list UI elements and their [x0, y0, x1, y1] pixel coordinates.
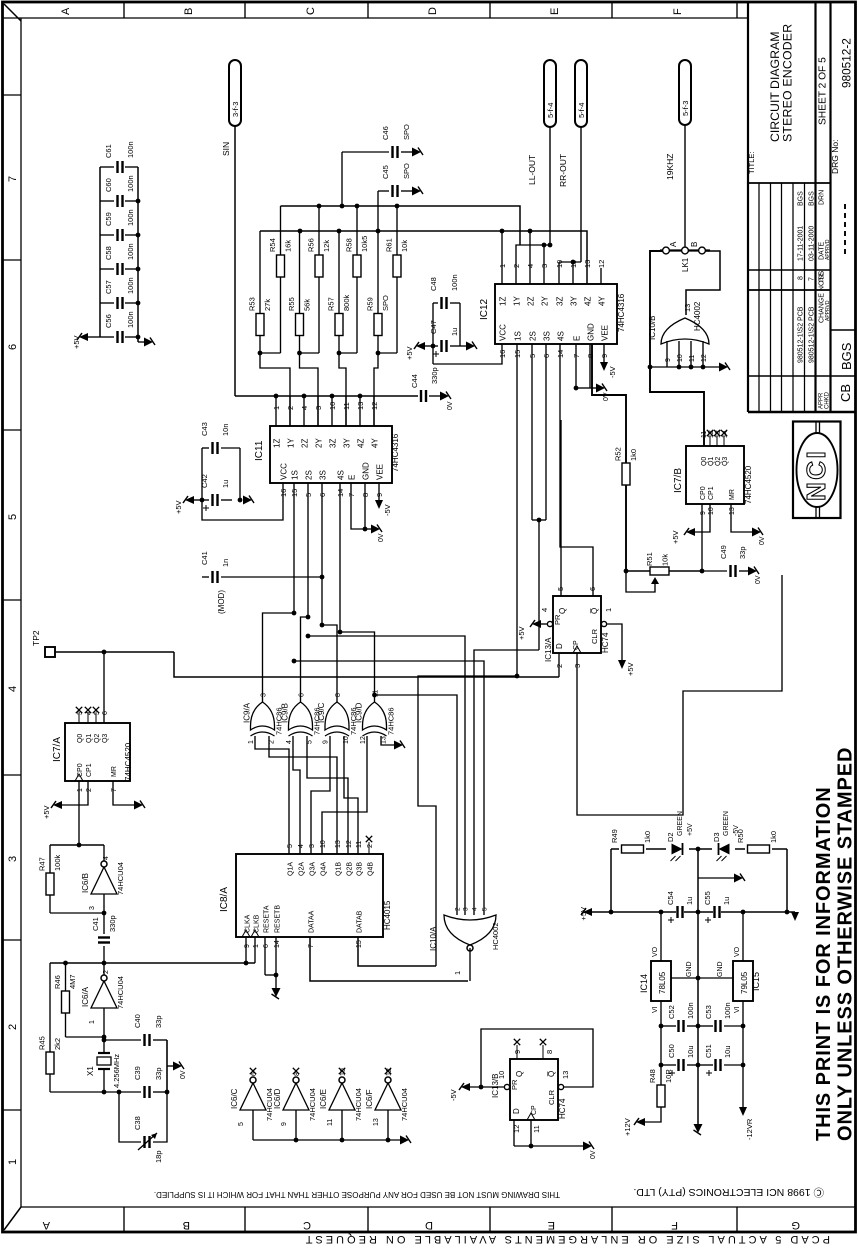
svg-text:SPO: SPO	[402, 163, 411, 179]
svg-text:STEREO ENCODER: STEREO ENCODER	[781, 24, 795, 142]
capacitor C44	[410, 367, 440, 402]
svg-text:17-11-2001: 17-11-2001	[798, 226, 805, 261]
resistor R48	[645, 1069, 673, 1122]
svg-text:100n: 100n	[450, 274, 459, 291]
regulator IC14 78L05	[639, 912, 698, 1087]
svg-text:IC9/A: IC9/A	[243, 702, 252, 723]
frame row numbers left	[7, 176, 19, 1165]
svg-text:C40: C40	[133, 1014, 142, 1028]
svg-text:2Z: 2Z	[527, 297, 536, 306]
ground (cap bank)	[138, 338, 155, 347]
svg-text:3-f-3: 3-f-3	[231, 102, 240, 117]
svg-text:4Y: 4Y	[371, 438, 380, 448]
svg-text:4Z: 4Z	[357, 439, 366, 448]
svg-text:+5V: +5V	[42, 805, 51, 819]
ground (IC11)	[371, 525, 385, 543]
svg-text:Q0: Q0	[77, 734, 84, 743]
gate IC6/F 74HCU04	[365, 1068, 409, 1143]
svg-text:G: G	[791, 1219, 800, 1231]
svg-text:Q0: Q0	[701, 457, 708, 466]
wire +5V rail	[579, 907, 698, 921]
wire bus lower	[260, 229, 587, 284]
wire IC13/A D	[558, 653, 560, 677]
wire IC11 VCC	[202, 483, 283, 520]
capacitor C41 (MOD)	[200, 551, 324, 614]
svg-text:2Y: 2Y	[315, 438, 324, 448]
svg-text:10k5: 10k5	[360, 236, 369, 252]
svg-text:-5V: -5V	[608, 366, 617, 378]
svg-text:74HCU04: 74HCU04	[400, 1088, 409, 1121]
svg-text:IC12: IC12	[479, 298, 490, 320]
svg-text:74HCU04: 74HCU04	[116, 862, 125, 895]
wire select nest	[292, 634, 539, 915]
wire IC11 selects	[294, 483, 340, 632]
svg-text:HC4002: HC4002	[693, 301, 702, 331]
svg-text:D3: D3	[712, 832, 721, 842]
svg-text:SHEET 2 OF 5: SHEET 2 OF 5	[818, 57, 829, 125]
wire IC12 selects	[418, 344, 593, 966]
svg-text:33p: 33p	[154, 1067, 163, 1080]
svg-text:0V: 0V	[603, 392, 610, 401]
power +5V (IC11)	[174, 496, 202, 514]
svg-text:12: 12	[597, 260, 606, 268]
svg-text:HC74: HC74	[558, 1098, 567, 1119]
svg-text:VO: VO	[734, 946, 741, 957]
svg-text:C51: C51	[704, 1044, 713, 1058]
wire IC13/B Q stubs	[514, 1039, 546, 1059]
capacitor C55	[703, 891, 731, 923]
svg-text:980512-2: 980512-2	[840, 38, 854, 88]
wire IC13/A CLR +5V	[601, 621, 635, 676]
svg-text:IC15: IC15	[751, 972, 761, 991]
ground (IC12)	[596, 384, 610, 402]
svg-text:Q1: Q1	[708, 457, 715, 466]
svg-text:100n: 100n	[126, 175, 135, 192]
svg-text:5-f-4: 5-f-4	[577, 103, 586, 118]
svg-text:74HC4316: 74HC4316	[617, 293, 626, 332]
capacitor C51	[698, 1044, 743, 1076]
svg-text:16k: 16k	[284, 240, 293, 252]
regulator IC15 79L05	[698, 912, 761, 1107]
IC IC7/A 74HC4520	[52, 723, 133, 781]
wire IC9 inputs	[255, 736, 394, 854]
svg-text:CP1: CP1	[86, 763, 93, 777]
gate IC6/B 74HCU04	[50, 845, 125, 915]
stamp note THIS PRINT IS FOR INFORMATION	[813, 747, 857, 1141]
wire LK1 B to IC10/B out	[686, 251, 720, 315]
resistor R54	[268, 206, 293, 353]
svg-text:HC74: HC74	[601, 632, 610, 653]
wire clock bus	[50, 843, 255, 966]
svg-text:33p: 33p	[738, 546, 747, 559]
capacitor C58	[100, 243, 140, 275]
connector 19KHZ 5-f-3	[665, 60, 691, 180]
svg-text:56k: 56k	[303, 299, 312, 311]
resistor R52	[592, 344, 638, 573]
wire	[100, 167, 138, 342]
svg-text:APPRVD: APPRVD	[825, 239, 831, 260]
capacitor C53	[698, 1002, 743, 1032]
svg-text:-5V: -5V	[449, 1089, 458, 1101]
svg-text:2: 2	[86, 788, 93, 792]
svg-text:8: 8	[798, 276, 805, 280]
svg-text:6: 6	[7, 344, 19, 350]
svg-text:R49: R49	[610, 829, 619, 843]
svg-text:4Y: 4Y	[598, 296, 607, 306]
svg-text:SPO: SPO	[381, 295, 390, 311]
ground (power top)	[734, 874, 743, 883]
svg-text:5: 5	[287, 844, 294, 848]
svg-text:Q̅: Q̅	[590, 608, 599, 614]
svg-text:-5V: -5V	[383, 504, 392, 516]
svg-text:9: 9	[700, 511, 707, 515]
svg-text:C39: C39	[133, 1066, 142, 1080]
svg-text:B: B	[183, 1219, 190, 1231]
wire IC8 DATAB	[358, 937, 436, 966]
svg-text:5: 5	[7, 514, 19, 520]
svg-text:1Z: 1Z	[273, 439, 282, 448]
resistor R53	[248, 231, 273, 353]
svg-text:GND: GND	[362, 462, 371, 480]
svg-text:DRN: DRN	[819, 190, 826, 205]
svg-text:74HCU04: 74HCU04	[354, 1088, 363, 1121]
svg-text:C56: C56	[104, 314, 113, 328]
LED D2 GREEN	[666, 811, 694, 861]
power +5V (IC12)	[405, 342, 433, 360]
svg-text:10u: 10u	[686, 1045, 695, 1058]
svg-text:MR: MR	[729, 489, 736, 500]
capacitor C43	[200, 422, 240, 500]
svg-text:C: C	[303, 1219, 311, 1231]
svg-text:-12VR: -12VR	[745, 1118, 754, 1140]
svg-text:100n: 100n	[126, 311, 135, 328]
svg-text:BGS: BGS	[798, 191, 805, 206]
capacitor C47	[429, 320, 466, 357]
svg-text:2k2: 2k2	[53, 1038, 62, 1050]
revision table	[798, 190, 855, 409]
connector SIN 3-f-3	[221, 60, 241, 156]
svg-text:2: 2	[512, 264, 521, 268]
wire LL-OUT	[516, 127, 552, 284]
svg-text:1: 1	[604, 608, 613, 612]
svg-text:C58: C58	[104, 246, 113, 260]
svg-text:IC6/A: IC6/A	[81, 986, 90, 1007]
wire IC7/B MR ground	[731, 504, 766, 545]
svg-text:R52: R52	[614, 447, 623, 461]
svg-text:R50: R50	[736, 829, 745, 843]
svg-text:100n: 100n	[126, 277, 135, 294]
svg-text:3Z: 3Z	[329, 439, 338, 448]
svg-text:980512-1\S2 PCB: 980512-1\S2 PCB	[798, 306, 805, 363]
svg-text:B: B	[690, 242, 699, 247]
svg-text:4: 4	[286, 740, 293, 744]
svg-text:VEE: VEE	[601, 325, 610, 341]
wire IC13/A PR +5V	[517, 620, 553, 640]
power -5V (IC13/B)	[449, 1083, 470, 1101]
svg-text:78L05: 78L05	[658, 971, 667, 994]
capacitor C57	[100, 277, 140, 309]
svg-text:C42: C42	[200, 474, 209, 488]
svg-text:R58: R58	[345, 238, 354, 252]
svg-text:CP1: CP1	[708, 486, 715, 500]
svg-text:IC7/A: IC7/A	[52, 737, 63, 762]
wire ladder jogs	[258, 351, 397, 426]
svg-text:VI: VI	[734, 1006, 741, 1013]
gate IC6/C 74HCU04	[230, 1068, 274, 1140]
svg-text:C60: C60	[104, 178, 113, 192]
wire IC7/B CP0	[701, 504, 703, 571]
resistor R58	[345, 206, 370, 353]
IC11 pins top	[272, 402, 380, 448]
ground (C49)	[748, 567, 762, 585]
svg-text:3Y: 3Y	[570, 296, 579, 306]
svg-text:E: E	[348, 475, 357, 480]
ground (IC13/B)	[583, 1142, 597, 1160]
svg-text:Q4A: Q4A	[321, 862, 328, 876]
svg-text:R55: R55	[287, 297, 296, 311]
svg-text:1u: 1u	[722, 897, 731, 905]
svg-text:2: 2	[7, 1024, 19, 1030]
svg-text:0V: 0V	[180, 1070, 187, 1079]
svg-text:0V: 0V	[447, 401, 454, 410]
svg-text:IC10/B: IC10/B	[648, 316, 657, 340]
svg-text:R51: R51	[645, 552, 654, 566]
svg-text:+5V: +5V	[579, 907, 588, 921]
svg-text:13: 13	[373, 1118, 380, 1126]
svg-text:IC14: IC14	[639, 974, 649, 993]
ground (IC9/D input)	[394, 741, 403, 750]
svg-text:R54: R54	[268, 238, 277, 252]
svg-text:C52: C52	[667, 1005, 676, 1019]
svg-text:3: 3	[89, 906, 96, 910]
IC IC8/A HC4015	[219, 854, 392, 937]
svg-text:VO: VO	[652, 946, 659, 957]
svg-text:13: 13	[335, 840, 342, 848]
svg-text:11: 11	[356, 841, 363, 848]
svg-text:C: C	[305, 7, 317, 15]
svg-text:E: E	[573, 336, 582, 341]
power -12VR	[739, 1107, 754, 1140]
svg-text:R59: R59	[366, 297, 375, 311]
svg-text:C59: C59	[104, 212, 113, 226]
svg-text:12: 12	[701, 354, 708, 362]
svg-text:13: 13	[729, 507, 736, 515]
ground (C47)	[466, 342, 475, 351]
capacitor C56	[100, 311, 140, 343]
svg-text:A: A	[42, 1219, 50, 1231]
svg-text:4: 4	[7, 686, 19, 692]
svg-text:1S: 1S	[514, 331, 523, 341]
svg-text:D: D	[555, 643, 564, 649]
gate IC9/D 74HC86	[355, 690, 396, 744]
svg-text:3: 3	[463, 907, 470, 911]
svg-text:F: F	[672, 8, 684, 15]
wire IC11 Z inputs	[235, 394, 418, 426]
svg-text:GREEN: GREEN	[723, 811, 730, 836]
svg-text:5: 5	[482, 907, 489, 911]
svg-text:Q: Q	[515, 1071, 524, 1077]
gate IC6/E 74HCU04	[319, 1068, 363, 1143]
svg-text:R46: R46	[53, 975, 62, 989]
svg-text:IC6/F: IC6/F	[365, 1089, 374, 1109]
svg-text:GND: GND	[587, 323, 596, 341]
svg-text:1u: 1u	[221, 480, 230, 488]
svg-text:10: 10	[497, 1071, 506, 1079]
svg-text:1n: 1n	[221, 559, 230, 567]
svg-text:100n: 100n	[126, 141, 135, 158]
svg-text:PCAD 5 ACTUAL SIZE OR ENLA: PCAD 5 ACTUAL SIZE OR ENLARGEMENTS AVAIL…	[303, 1233, 830, 1245]
svg-text:2: 2	[455, 907, 462, 911]
title text	[747, 24, 795, 174]
svg-text:Q: Q	[558, 608, 567, 614]
wire 19KHZ	[684, 125, 686, 248]
wire IC7/A CP0 clock	[78, 781, 80, 845]
svg-text:100k: 100k	[53, 854, 62, 871]
svg-text:BGS: BGS	[839, 342, 854, 370]
svg-text:8: 8	[335, 693, 342, 697]
svg-text:7: 7	[809, 277, 816, 281]
svg-text:3S: 3S	[319, 470, 328, 480]
svg-text:E: E	[549, 8, 561, 15]
svg-text:7: 7	[7, 176, 19, 182]
svg-text:3Z: 3Z	[556, 297, 565, 306]
IC12 pins bottom	[498, 323, 610, 358]
svg-text:TITLE:: TITLE:	[747, 151, 756, 174]
ground (IC10/B)	[719, 363, 728, 372]
svg-text:1: 1	[248, 740, 255, 744]
svg-text:100n: 100n	[126, 209, 135, 226]
power +12V	[623, 1118, 645, 1136]
svg-text:Q2A: Q2A	[299, 862, 306, 876]
IC IC13/A HC74	[544, 596, 610, 662]
svg-text:4: 4	[540, 608, 549, 612]
svg-text:10: 10	[320, 840, 327, 848]
gate IC9/A 74HC86	[243, 693, 284, 744]
svg-text:4.256MHz: 4.256MHz	[112, 1054, 121, 1088]
svg-text:3: 3	[7, 856, 19, 862]
svg-text:CP: CP	[531, 1105, 538, 1115]
capacitor C54	[666, 891, 694, 923]
svg-text:HC4002: HC4002	[491, 922, 500, 950]
svg-text:C41: C41	[91, 917, 100, 931]
svg-text:PR: PR	[510, 1079, 519, 1090]
jumper LK1	[660, 241, 710, 272]
gate IC9/C 74HC86	[317, 693, 358, 744]
gate IC9/B 74HC86	[281, 693, 322, 744]
wire IC13/B PR CLR loop	[470, 1029, 593, 1090]
svg-text:DRG No:: DRG No:	[830, 140, 840, 174]
svg-text:100n: 100n	[686, 1002, 695, 1019]
svg-text:CP0: CP0	[700, 486, 707, 500]
svg-text:PR: PR	[553, 614, 562, 625]
svg-text:12: 12	[346, 840, 353, 848]
svg-text:1u: 1u	[450, 328, 459, 336]
svg-text:3: 3	[309, 844, 316, 848]
svg-text:A: A	[60, 7, 72, 15]
svg-text:+12V: +12V	[623, 1118, 632, 1136]
svg-text:1k0: 1k0	[629, 449, 638, 461]
svg-text:3: 3	[261, 693, 268, 697]
LED D3 GREEN	[712, 811, 740, 861]
wire IC9 outputs	[263, 611, 375, 702]
svg-text:Q3: Q3	[102, 734, 109, 743]
resistor R47	[38, 845, 63, 913]
svg-text:IC6/C: IC6/C	[230, 1088, 239, 1109]
svg-text:IC6/D: IC6/D	[273, 1088, 282, 1109]
svg-text:1Y: 1Y	[513, 296, 522, 306]
wire IC13/B D CP ground	[514, 1120, 583, 1148]
svg-text:74HC86: 74HC86	[387, 707, 396, 735]
svg-text:X1: X1	[86, 1066, 95, 1076]
svg-text:33p: 33p	[154, 1015, 163, 1028]
capacitor C61	[100, 141, 138, 173]
svg-text:Q1: Q1	[86, 734, 93, 743]
svg-text:74HCU04: 74HCU04	[308, 1088, 317, 1121]
ground (C44)	[440, 392, 454, 411]
gate IC10/B HC4002	[648, 301, 709, 344]
IC13/B pin numbers	[497, 1050, 570, 1133]
svg-text:C47: C47	[429, 320, 438, 334]
svg-text:Q2: Q2	[715, 457, 722, 466]
capacitor C41 osc 330p	[91, 913, 117, 963]
wire IC6 spare inputs	[253, 1139, 400, 1141]
power -5V (IC11 VEE)	[375, 483, 392, 516]
svg-text:5: 5	[238, 1122, 245, 1126]
resistor R45	[38, 963, 63, 1092]
svg-text:C57: C57	[104, 280, 113, 294]
svg-text:4Z: 4Z	[584, 297, 593, 306]
capacitor C42	[200, 474, 243, 511]
svg-text:11: 11	[569, 260, 578, 268]
svg-text:330p: 330p	[430, 367, 439, 384]
svg-text:10k: 10k	[661, 554, 670, 566]
svg-text:100n: 100n	[126, 243, 135, 260]
gate IC6/A 74HCU04	[81, 963, 125, 1039]
wire IC8 resets ground	[265, 937, 281, 999]
svg-text:CLR: CLR	[590, 628, 599, 644]
svg-text:1u: 1u	[685, 897, 694, 905]
power +5V (cap bank)	[72, 333, 100, 349]
svg-text:THIS DRAWING MUST NOT BE USED: THIS DRAWING MUST NOT BE USED FOR ANY PU…	[154, 1190, 560, 1199]
svg-text:4: 4	[298, 844, 305, 848]
svg-text:HC4015: HC4015	[383, 900, 392, 930]
wire IC12 E GND ground	[574, 344, 596, 390]
svg-text:IC6/B: IC6/B	[81, 873, 90, 893]
svg-text:+5V: +5V	[626, 662, 635, 676]
svg-text:R45: R45	[38, 1036, 47, 1050]
svg-text:0V: 0V	[378, 533, 385, 542]
wire IC13/A Q	[560, 420, 562, 596]
svg-text:NCI: NCI	[801, 449, 831, 501]
svg-text:Q1B: Q1B	[336, 862, 343, 876]
svg-text:CB: CB	[838, 384, 853, 402]
IC8/A pins bottom	[242, 905, 364, 948]
ground (power bottom)	[694, 1124, 703, 1133]
svg-text:Q2B: Q2B	[347, 862, 354, 876]
svg-text:5-f-4: 5-f-4	[546, 103, 555, 118]
svg-text:C54: C54	[666, 891, 675, 905]
svg-text:Q3A: Q3A	[310, 862, 317, 876]
svg-text:74HCU04: 74HCU04	[116, 976, 125, 1009]
svg-text:R57: R57	[327, 297, 336, 311]
svg-text:9: 9	[281, 1122, 288, 1126]
svg-text:9: 9	[665, 358, 672, 362]
svg-text:11: 11	[327, 1119, 334, 1126]
svg-text:7: 7	[308, 944, 315, 948]
svg-text:LK1: LK1	[681, 257, 690, 272]
svg-text:1: 1	[89, 1020, 96, 1024]
svg-text:Q̅: Q̅	[547, 1071, 556, 1077]
